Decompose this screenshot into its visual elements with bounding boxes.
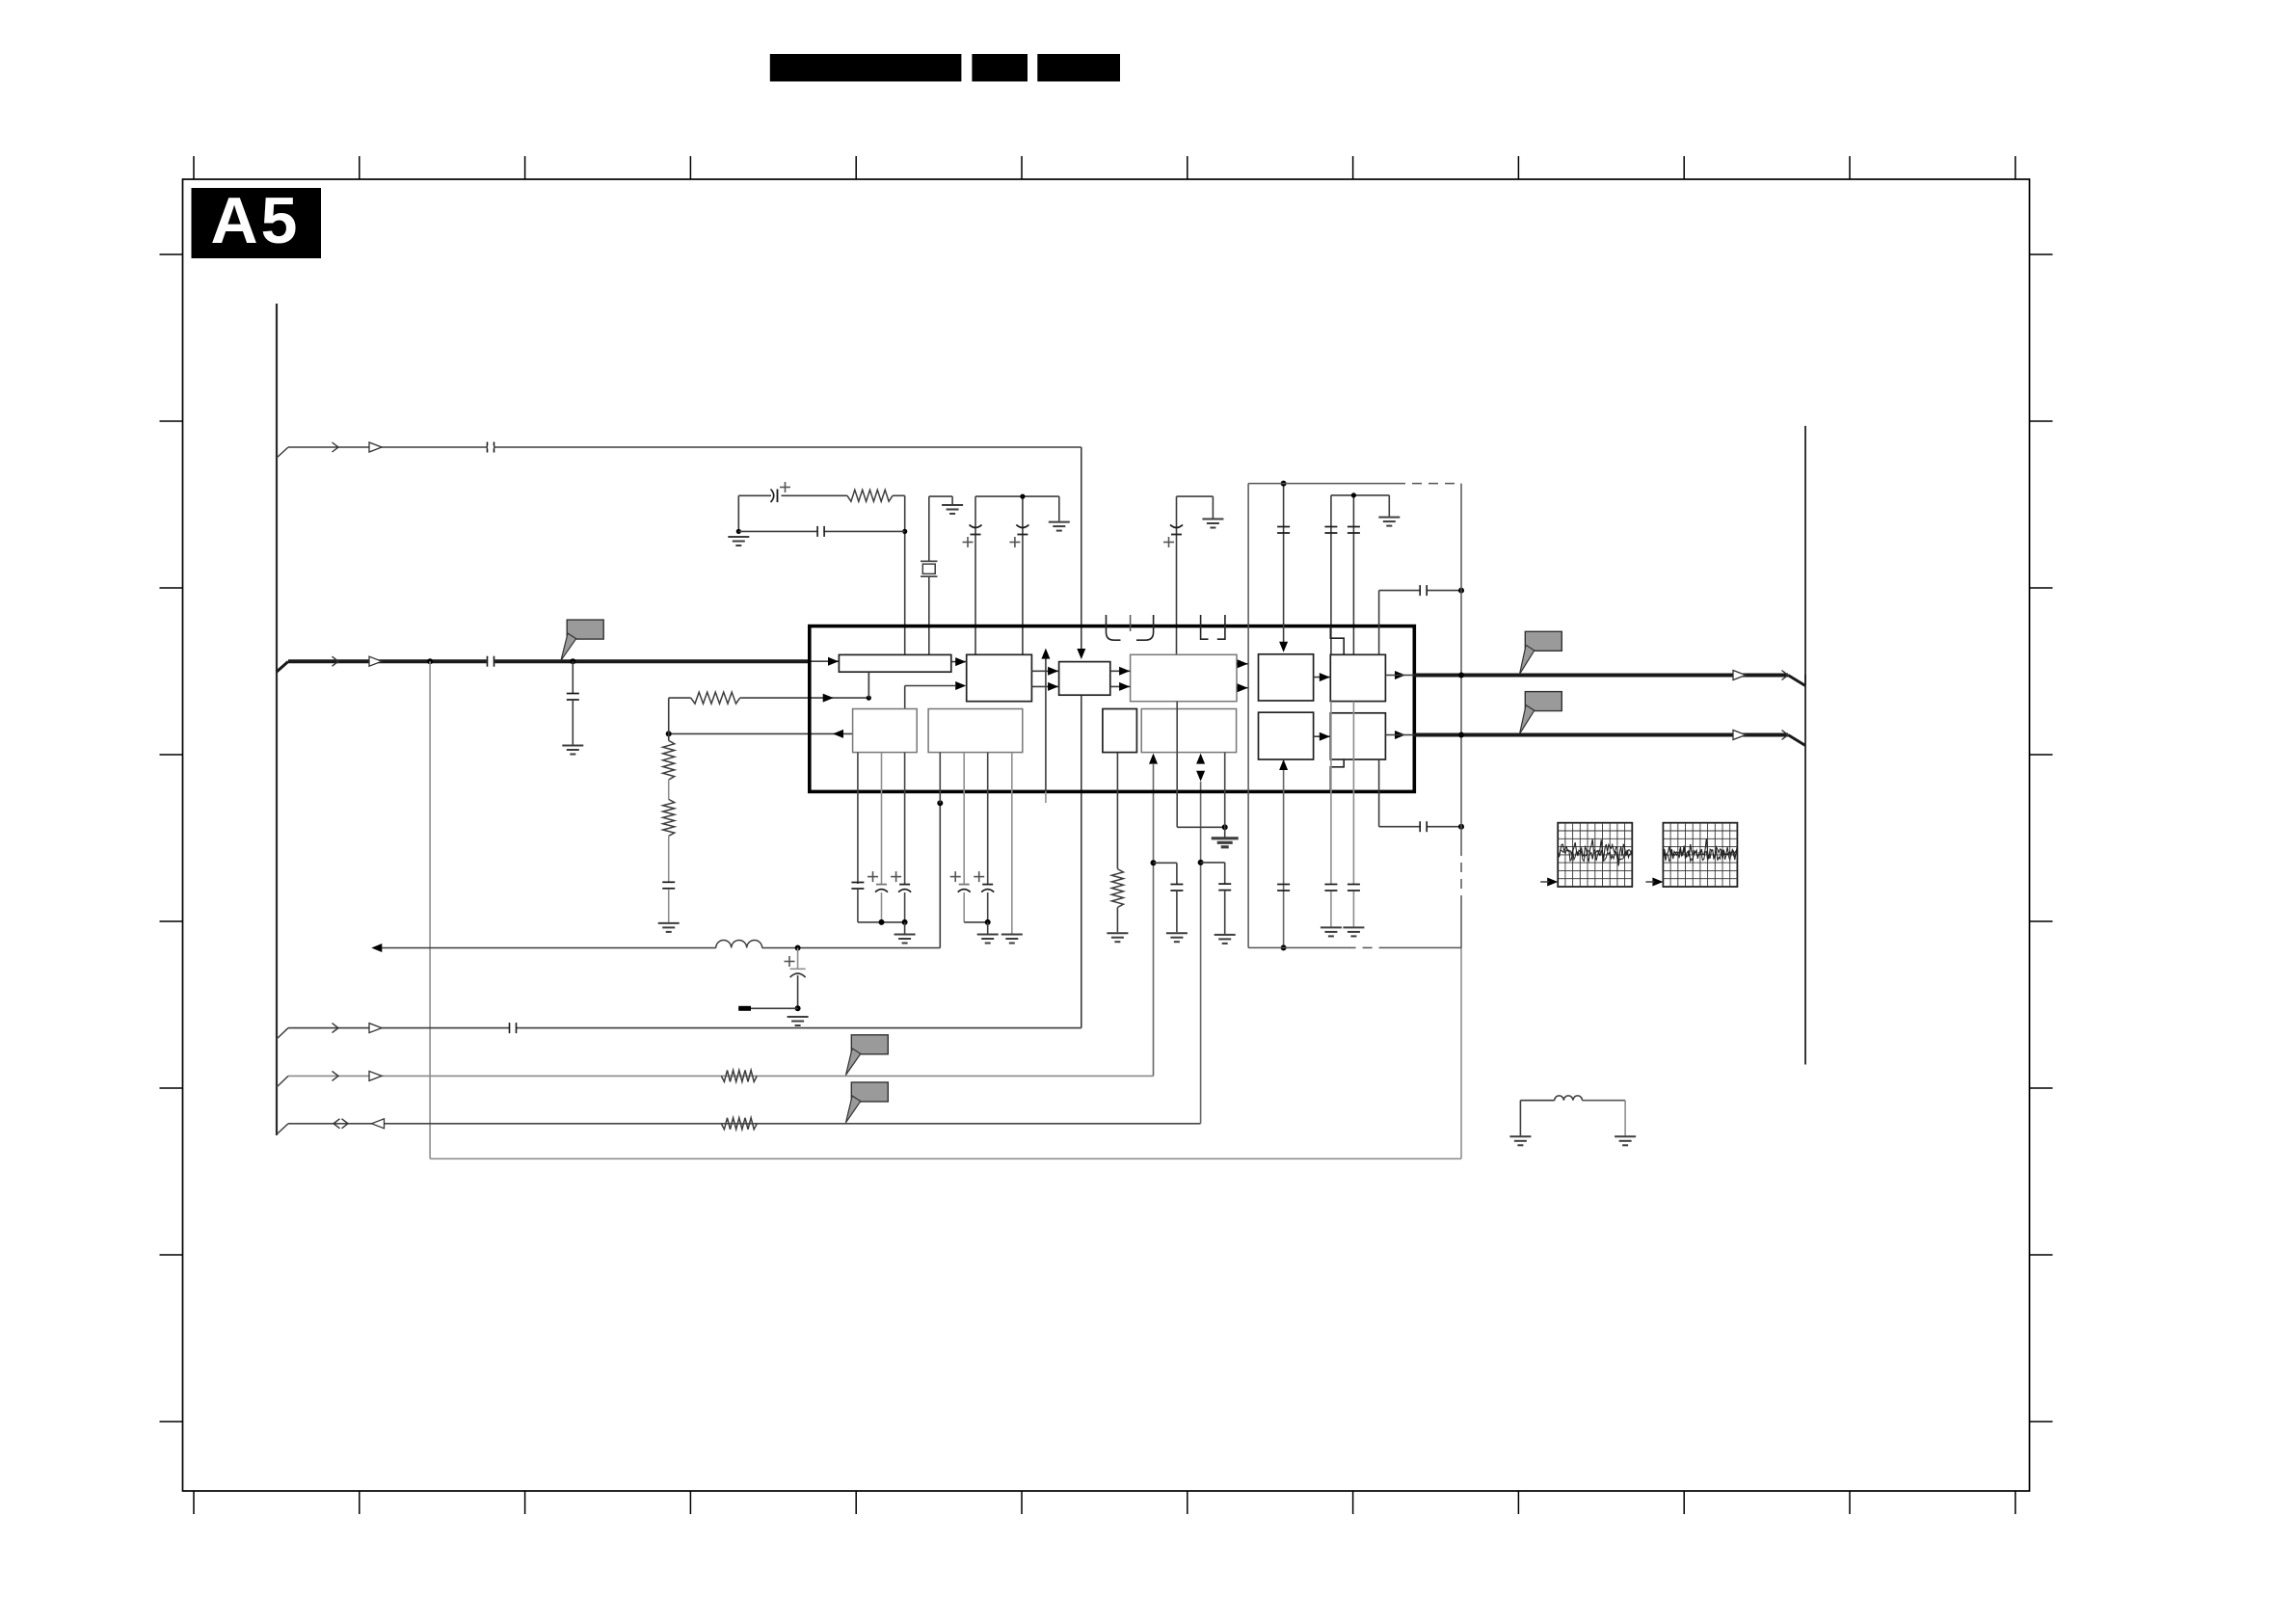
- svg-text:A5: A5: [211, 184, 301, 257]
